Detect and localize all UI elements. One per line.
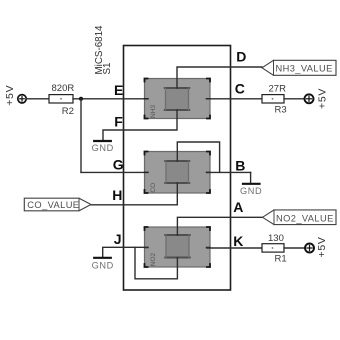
wire R2 to pin E [73, 98, 148, 100]
sensor NO2 body [145, 227, 211, 267]
wire A electrode (top of NO2) [177, 217, 262, 235]
wire B [207, 171, 251, 173]
svg-text:NH3: NH3 [150, 105, 157, 118]
svg-text:CO: CO [150, 183, 157, 193]
ground (pin B) [240, 184, 262, 196]
wire B exterior to GND [250, 172, 252, 182]
svg-text:S1: S1 [102, 63, 113, 75]
wire B electrode (top of CO) [177, 142, 219, 172]
resistor R1 [262, 233, 287, 265]
net tag NH3_VALUE [262, 60, 336, 75]
svg-text:+5V: +5V [317, 88, 329, 109]
svg-text:C: C [235, 81, 245, 97]
ground (pin J) [92, 258, 114, 271]
svg-text:R1: R1 [275, 254, 287, 265]
svg-text:F: F [114, 114, 123, 130]
wire F electrode (bottom of NH3) [124, 110, 178, 130]
sensor NH3 body [145, 79, 211, 119]
sensor CO body [145, 152, 211, 194]
wire J exterior to GND [103, 247, 124, 257]
junction dot [79, 97, 83, 101]
svg-text:CO_VALUE: CO_VALUE [27, 200, 79, 210]
svg-text:H: H [112, 187, 122, 203]
svg-text:R3: R3 [275, 105, 287, 116]
wire R1 to +5V [284, 247, 305, 249]
svg-text:+5V: +5V [4, 85, 16, 106]
svg-text:GND: GND [240, 186, 262, 196]
svg-text:K: K [233, 233, 243, 249]
wire K [207, 247, 262, 249]
ground (pin F) [92, 141, 114, 153]
wire J electrode (bottom of NO2) [135, 247, 177, 278]
svg-text:R2: R2 [62, 106, 74, 117]
svg-text:G: G [113, 157, 124, 173]
net tag NO2_VALUE [263, 210, 337, 225]
svg-text:+5V: +5V [316, 236, 328, 257]
svg-text:27R: 27R [269, 84, 287, 95]
svg-text:J: J [114, 231, 122, 247]
wire J [124, 246, 148, 248]
svg-text:130: 130 [268, 233, 284, 244]
svg-text:NO2_VALUE: NO2_VALUE [276, 213, 334, 223]
wire R3 to +5V [284, 98, 305, 100]
svg-text:B: B [235, 157, 245, 173]
svg-text:GND: GND [92, 143, 114, 153]
wire H electrode (bottom of CO) [91, 183, 177, 205]
svg-text:NO2: NO2 [150, 252, 157, 266]
power +5V (pin K) [305, 236, 328, 257]
wire G [81, 171, 148, 173]
resistor R3 [262, 84, 287, 116]
svg-text:GND: GND [92, 260, 114, 270]
wire +5V to R2 [26, 98, 49, 100]
resistor R2 [49, 83, 74, 117]
component outline S1 (MiCS-6814 box) [124, 46, 231, 291]
svg-text:A: A [233, 199, 243, 215]
wire junction down to G [80, 99, 82, 173]
svg-text:820R: 820R [52, 83, 75, 94]
svg-text:E: E [114, 82, 123, 98]
wire F exterior to GND [103, 130, 124, 140]
svg-text:D: D [236, 48, 246, 64]
wire C [207, 98, 262, 100]
power +5V (left) [4, 85, 26, 106]
power +5V (pin C) [305, 88, 329, 109]
svg-text:NH3_VALUE: NH3_VALUE [276, 64, 333, 74]
wire D electrode (top of NH3) [177, 67, 262, 88]
net tag CO_VALUE [24, 198, 91, 211]
